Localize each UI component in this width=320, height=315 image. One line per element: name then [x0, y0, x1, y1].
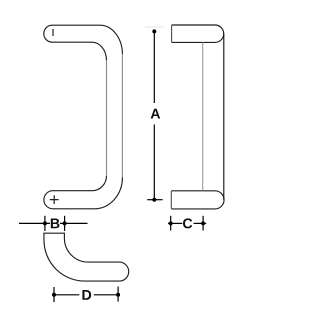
dimension line C right segment — [194, 222, 207, 224]
top leg mounting face — [171, 25, 173, 42]
label A — [151, 109, 161, 119]
bottom leg mounting face — [170, 191, 172, 209]
top-left cap and top leg outer edge with outer bend — [44, 25, 123, 54]
dot D right — [116, 293, 120, 297]
extension tick B right — [64, 216, 66, 231]
dimension line A lower segment — [153, 125, 155, 200]
grip back edge (black) — [223, 34, 225, 200]
handle top leg + caps (black outline) — [44, 25, 123, 209]
bottom bend outer + bottom leg + bottom-left cap + inner bend — [44, 176, 123, 209]
extension tick at A bottom — [147, 199, 162, 201]
dimension line B left segment — [19, 222, 50, 224]
dot B left — [43, 221, 47, 225]
label C — [183, 218, 192, 228]
center cross in bottom cap — [50, 195, 59, 204]
dimension line D left segment — [54, 294, 79, 296]
label B — [51, 219, 60, 229]
dimension line A upper segment — [153, 31, 155, 103]
bottom mounting leg (stadium) — [171, 191, 224, 209]
top leg inner bend — [92, 42, 107, 60]
extension tick C left — [170, 216, 172, 231]
dot B right — [63, 221, 67, 225]
extension tick B left — [44, 216, 46, 231]
extension tick C right — [202, 216, 204, 231]
wire grip inner edge — [106, 60, 108, 176]
handle grip vertical edges (gray) — [107, 54, 123, 177]
dot C right — [201, 221, 205, 225]
centerline tick in top cap — [52, 29, 54, 36]
extension tick D right — [117, 287, 119, 302]
grip front edge (light gray) — [202, 42, 204, 190]
dot C left — [169, 221, 173, 225]
dot A top — [152, 29, 156, 33]
dot A bottom — [152, 198, 156, 202]
leg mounting faces (dark gray) — [170, 25, 172, 208]
dimension line B right segment — [60, 222, 88, 224]
dimension line D right segment — [94, 294, 118, 296]
extension tick D left — [53, 287, 55, 302]
top mounting leg (stadium) — [172, 25, 224, 42]
faint extension tick at A top — [145, 26, 164, 28]
wire grip outer edge — [121, 54, 123, 177]
dimension line C left segment — [168, 222, 182, 224]
label D — [82, 290, 91, 300]
dot D left — [52, 293, 56, 297]
